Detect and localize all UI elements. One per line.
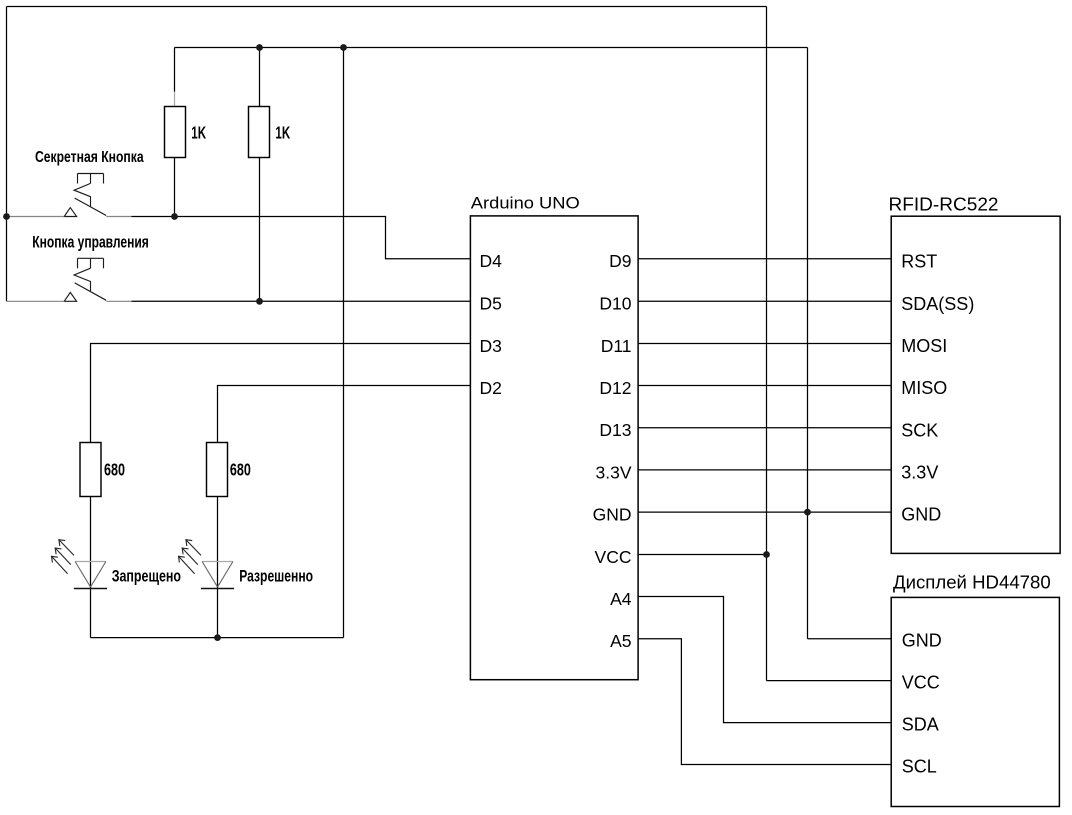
svg-text:D4: D4 [480, 251, 503, 271]
wire long vertical GND [343, 48, 345, 638]
wire D11 to MOSI [638, 343, 891, 345]
junction [3, 213, 10, 220]
svg-text:RST: RST [901, 251, 937, 271]
svg-text:D5: D5 [480, 294, 502, 314]
svg-text:3.3V: 3.3V [901, 463, 938, 483]
wire LED bottom rail [91, 637, 344, 639]
svg-text:1K: 1K [275, 122, 290, 142]
svg-text:3.3V: 3.3V [596, 462, 632, 482]
wire vertical right VCC drop [766, 7, 768, 681]
wire 3.3V to 3.3V [638, 469, 891, 471]
svg-text:D2: D2 [480, 378, 502, 398]
svg-text:MISO: MISO [901, 378, 947, 398]
svg-text:Запрещено: Запрещено [112, 568, 181, 586]
svg-text:GND: GND [901, 505, 941, 525]
svg-text:680: 680 [230, 460, 251, 480]
svg-text:D11: D11 [601, 336, 632, 356]
wire second rail [175, 47, 808, 49]
svg-text:D9: D9 [609, 251, 631, 271]
svg-text:A5: A5 [610, 631, 631, 651]
pushbutton SB1 [7, 174, 132, 217]
wire A4 to display SDA [638, 597, 891, 723]
svg-text:Arduino UNO: Arduino UNO [471, 193, 580, 212]
wire top rail VCC [7, 6, 767, 8]
svg-text:D13: D13 [599, 420, 631, 440]
junction [763, 551, 770, 558]
svg-text:RFID-RC522: RFID-RC522 [889, 195, 999, 215]
svg-text:VCC: VCC [902, 672, 940, 692]
pushbutton SB2 [7, 258, 132, 301]
svg-text:Кнопка управления: Кнопка управления [32, 233, 149, 251]
svg-text:1K: 1K [191, 122, 206, 142]
svg-text:SCK: SCK [901, 420, 938, 440]
wire to display GND [808, 638, 892, 640]
wire D2 to R4 [218, 386, 471, 443]
IC U1 Arduino UNO box [470, 216, 638, 680]
resistor R1 1K [165, 48, 186, 217]
svg-text:VCC: VCC [595, 547, 632, 567]
wire D9 to RST [638, 258, 891, 260]
wire button1 to D4 [132, 217, 471, 259]
wire button2 to D5 [132, 300, 471, 302]
wire GND to GND [638, 511, 891, 513]
junction [340, 44, 347, 51]
svg-text:Секретная Кнопка: Секретная Кнопка [35, 149, 144, 166]
junction [256, 44, 263, 51]
wire D13 to SCK [638, 427, 891, 429]
svg-text:GND: GND [593, 505, 632, 525]
junction [804, 509, 811, 516]
IC U3 display HD44780 box [891, 597, 1059, 806]
LED D1 [52, 540, 108, 589]
svg-text:D10: D10 [599, 294, 631, 314]
svg-text:MOSI: MOSI [901, 336, 947, 356]
LED D2 [179, 540, 235, 589]
wire vertical right GND drop [807, 48, 809, 639]
svg-text:GND: GND [902, 631, 942, 651]
wire left border [6, 7, 8, 302]
wire VCC to vertical [638, 554, 766, 556]
junction [256, 298, 263, 305]
svg-text:SDA: SDA [902, 714, 939, 734]
wire D10 to SDA(SS) [638, 300, 891, 302]
svg-text:Дисплей HD44780: Дисплей HD44780 [893, 573, 1051, 593]
svg-text:Разрешенно: Разрешенно [239, 568, 313, 586]
svg-text:D12: D12 [599, 378, 631, 398]
svg-text:SCL: SCL [902, 756, 937, 776]
svg-text:D3: D3 [480, 336, 502, 356]
svg-text:680: 680 [104, 460, 125, 480]
wire D3 to R3 [91, 344, 471, 443]
wire A5 to display SCL [638, 639, 891, 765]
resistor R2 1K [249, 48, 270, 302]
resistor R3 680 [80, 443, 101, 638]
svg-text:A4: A4 [610, 589, 632, 609]
junction [214, 634, 221, 641]
resistor R4 680 [207, 443, 228, 638]
wire D12 to MISO [638, 385, 891, 387]
wire to display VCC [767, 680, 892, 682]
svg-text:SDA(SS): SDA(SS) [901, 294, 974, 314]
junction [171, 213, 178, 220]
IC U2 RFID-RC522 box [891, 216, 1060, 553]
